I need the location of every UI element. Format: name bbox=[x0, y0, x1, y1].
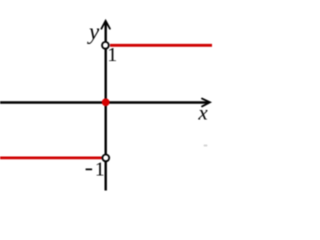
svg-text:x: x bbox=[197, 101, 208, 125]
svg-text:1: 1 bbox=[107, 44, 117, 66]
signum function graph bbox=[0, 0, 212, 212]
x-axis bbox=[0, 99, 210, 107]
svg-text:1: 1 bbox=[95, 159, 105, 181]
svg-text:y: y bbox=[87, 19, 100, 44]
open circle at (0,1) bbox=[102, 42, 109, 49]
y-axis bbox=[101, 21, 110, 191]
open circle at (0,-1) bbox=[102, 155, 109, 162]
filled red point at origin bbox=[102, 98, 110, 106]
red segment y=1 for x>0 bbox=[110, 44, 212, 47]
faint artifact dash bbox=[204, 145, 208, 147]
red segment y=-1 for x<0 bbox=[0, 156, 102, 159]
label -1 minus sign bbox=[86, 169, 93, 171]
